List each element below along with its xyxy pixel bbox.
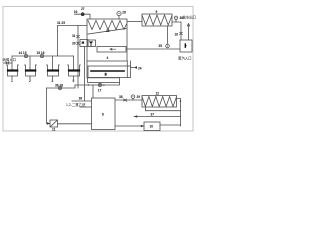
svg-text:丙烯入口: 丙烯入口 — [3, 57, 17, 62]
svg-text:17: 17 — [98, 89, 102, 93]
manifold y56 — [12, 55, 74, 57]
wire return y116.5 arrow — [134, 116, 181, 118]
exchanger 12 shell — [142, 96, 177, 108]
svg-text:2: 2 — [29, 79, 31, 83]
gauge 36 top right — [174, 16, 177, 22]
exchanger 9 shell — [142, 14, 172, 26]
wire vapor line y48 — [127, 48, 180, 50]
wire vertical x78 — [77, 26, 79, 89]
svg-text:1,2-二氯乙烷: 1,2-二氯乙烷 — [66, 102, 86, 107]
border frame — [3, 7, 193, 132]
dip tube tank3 — [51, 56, 53, 71]
svg-text:4: 4 — [107, 56, 109, 60]
svg-text:28: 28 — [122, 11, 126, 15]
wire exch9 bottom to gauge — [167, 26, 169, 44]
svg-text:12: 12 — [156, 92, 160, 96]
dip tube tank4 — [73, 56, 75, 71]
sloped tray vessel 4 — [88, 29, 126, 35]
box 7 — [180, 40, 192, 52]
svg-text:9: 9 — [156, 10, 158, 14]
svg-text:11: 11 — [52, 128, 56, 132]
svg-text:7: 7 — [185, 45, 187, 49]
tank 3 — [46, 65, 59, 79]
distributor rect inside vessel 4 — [97, 47, 126, 53]
tank 4 — [68, 65, 81, 79]
svg-text:14 15: 14 15 — [19, 51, 27, 55]
flat box 41 — [88, 78, 120, 83]
valve tick 16 — [180, 32, 183, 34]
vessel 4 evaporator — [87, 19, 127, 61]
wire return y110.7 — [146, 110, 181, 112]
valve bowtie 38 — [123, 99, 126, 102]
gauge 28 on vessel 4 — [117, 12, 121, 20]
run valve 17 — [98, 83, 104, 86]
tank 2 — [25, 65, 37, 79]
svg-text:39: 39 — [106, 29, 110, 33]
wire exch9 right to box7 — [172, 22, 181, 40]
svg-text:盐水出口: 盐水出口 — [183, 15, 197, 20]
inlet valve bowtie — [6, 62, 9, 64]
svg-text:36 18: 36 18 — [55, 84, 63, 88]
svg-text:37: 37 — [151, 113, 155, 117]
manifold valve 15 — [40, 54, 43, 57]
svg-text:8: 8 — [102, 113, 104, 117]
svg-text:1: 1 — [11, 79, 13, 83]
valve V27 — [81, 13, 84, 16]
dip tube tank2 — [29, 56, 31, 71]
svg-text:29: 29 — [137, 95, 141, 99]
exchanger 9 zigzag — [142, 15, 172, 25]
svg-text:27: 27 — [81, 7, 85, 11]
svg-text:16: 16 — [175, 33, 179, 37]
wire vertical x84.5 — [84, 47, 86, 102]
svg-text:31 25: 31 25 — [57, 21, 65, 25]
valve tick 31 — [77, 35, 80, 38]
mark inside box 7 — [184, 44, 186, 47]
funnel box inside vessel — [88, 40, 96, 47]
box 10 — [144, 122, 160, 131]
wire box11 to box8 — [58, 123, 92, 125]
wire top feed y14 — [75, 14, 91, 19]
coil zigzag vessel 4 — [88, 21, 127, 30]
exchanger 12 zigzag — [142, 97, 176, 107]
wire y101 into box8 — [72, 100, 92, 102]
wire x93 to box8 top — [92, 85, 94, 98]
svg-text:5: 5 — [73, 79, 75, 83]
gauge 35 — [166, 44, 170, 48]
svg-text:26: 26 — [79, 97, 83, 101]
wire bottom run y88-y85 — [47, 83, 120, 89]
wire box10 right — [160, 124, 181, 126]
run valve 18 — [58, 86, 62, 90]
junction dot run — [88, 84, 89, 85]
feed inlet pipe — [4, 62, 13, 64]
small box 36 on vessel wall — [80, 40, 88, 47]
stub valve 24 — [131, 66, 138, 69]
svg-text:38: 38 — [119, 95, 123, 99]
svg-text:24: 24 — [138, 67, 142, 71]
wire box8 to exch12 y100 — [115, 99, 142, 101]
svg-text:31: 31 — [72, 34, 76, 38]
gauge 29 — [131, 95, 135, 100]
wire vessel to exch9 y21.5 — [127, 21, 142, 23]
box 8 tank — [92, 98, 116, 130]
svg-text:35: 35 — [159, 44, 163, 48]
wire down to box11 — [47, 88, 51, 124]
svg-text:15 16: 15 16 — [37, 51, 45, 55]
svg-text:10: 10 — [150, 125, 154, 129]
wire exch12 bottom stub — [145, 107, 147, 111]
arrow mark 40 inside distributor — [110, 48, 116, 50]
svg-text:33: 33 — [74, 10, 78, 14]
wire box8 to box10 arrow — [115, 125, 144, 127]
wire brine outlet arrow — [187, 24, 189, 41]
svg-text:蒸汽入口: 蒸汽入口 — [178, 56, 192, 61]
wire vessel wall extension — [86, 61, 88, 78]
wire exch12 right hook — [177, 99, 181, 127]
wire y107 into box8 — [80, 106, 92, 108]
valve tick 30 — [77, 42, 80, 45]
wire side feed y25.5 — [58, 25, 88, 27]
svg-text:3: 3 — [52, 79, 54, 83]
manifold valve 14 — [24, 54, 27, 57]
wire vertical x57.5 — [57, 26, 59, 57]
box 5 condenser — [88, 61, 131, 78]
dip tube tank1 — [11, 56, 13, 71]
svg-text:30: 30 — [72, 42, 76, 46]
tank 1 — [7, 65, 19, 79]
svg-text:6: 6 — [105, 73, 107, 77]
junction dot right — [180, 100, 182, 102]
box 11 sight glass — [50, 120, 58, 127]
